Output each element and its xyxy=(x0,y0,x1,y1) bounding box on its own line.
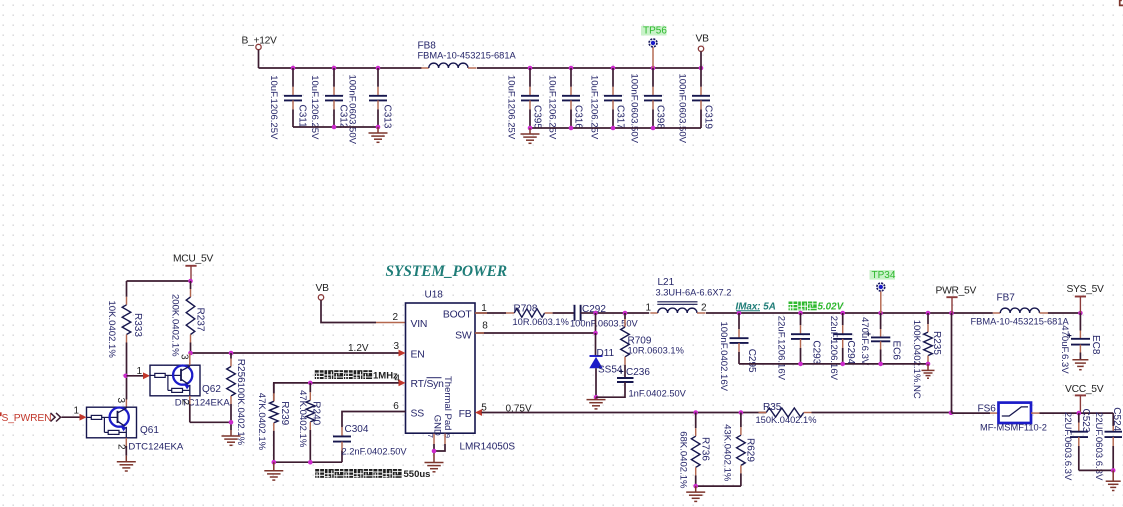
junction xyxy=(798,362,803,367)
junction xyxy=(798,311,803,316)
ground xyxy=(1072,359,1088,370)
svg-text:2: 2 xyxy=(115,444,126,450)
svg-text:43K.0402.1%: 43K.0402.1% xyxy=(721,424,732,482)
svg-text:100nF.0603.50V: 100nF.0603.50V xyxy=(347,75,358,145)
svg-text:0.75V: 0.75V xyxy=(506,403,532,414)
junction xyxy=(611,66,616,71)
diode D11 SS54 xyxy=(590,355,603,357)
svg-text:C311: C311 xyxy=(296,105,307,129)
capacitor C292 xyxy=(553,312,575,314)
svg-text:EN: EN xyxy=(411,349,425,360)
wire R256 to ground xyxy=(230,422,232,430)
wire FB net xyxy=(482,412,767,414)
junction xyxy=(528,66,533,71)
svg-text:1: 1 xyxy=(137,366,143,377)
ferrite bead FB7 xyxy=(993,312,1001,314)
junction xyxy=(651,126,656,131)
junction xyxy=(611,126,616,131)
power port SYS_5V xyxy=(1075,296,1086,298)
port VB (top) xyxy=(698,46,703,51)
svg-text:C313: C313 xyxy=(381,105,392,129)
svg-text:RT/Syn: RT/Syn xyxy=(411,379,445,390)
wire +12V rail left xyxy=(259,67,422,69)
svg-text:R240: R240 xyxy=(311,401,322,425)
svg-text:C398: C398 xyxy=(654,105,665,129)
svg-text:SS: SS xyxy=(411,408,425,419)
svg-text:U18: U18 xyxy=(425,290,444,301)
port S_PWREN xyxy=(0,412,2,416)
svg-text:47K.0402.1%: 47K.0402.1% xyxy=(297,390,308,448)
junction xyxy=(593,311,598,316)
resistor R709 xyxy=(624,313,626,319)
fuse FS6 MF-MSMF110-2 xyxy=(990,412,999,414)
capacitor EC8 (electrolytic) xyxy=(1079,313,1081,331)
capacitor C236 xyxy=(617,377,634,379)
wire RT/Syn net xyxy=(274,383,399,401)
svg-text:22UF.0603.6.3V: 22UF.0603.6.3V xyxy=(1062,412,1073,481)
junction xyxy=(229,351,234,356)
wire R333 to Q61 collector xyxy=(126,376,128,400)
capacitor C313 xyxy=(377,68,379,87)
svg-text:150K.0402.1%: 150K.0402.1% xyxy=(756,415,817,425)
wire Q61 emitter xyxy=(125,438,127,446)
svg-text:PWR_5V: PWR_5V xyxy=(936,285,977,296)
wire R35 to PWR_5V node xyxy=(812,412,952,414)
junction xyxy=(594,395,599,400)
junction xyxy=(593,331,598,336)
annotation: switching frequency 1MHz xyxy=(315,370,324,379)
svg-text:B_+12V: B_+12V xyxy=(242,36,278,47)
junction xyxy=(1078,311,1083,316)
svg-text:D11: D11 xyxy=(597,348,615,359)
svg-text:BOOT: BOOT xyxy=(443,309,472,320)
svg-text:1: 1 xyxy=(646,303,652,314)
svg-text:10uF.1206.25V: 10uF.1206.25V xyxy=(505,75,516,140)
svg-text:FBMA-10-453215-681A: FBMA-10-453215-681A xyxy=(418,51,517,61)
test point TP34 xyxy=(880,291,882,313)
wire EN net xyxy=(191,352,399,354)
test point TP56 symbol xyxy=(641,26,667,36)
svg-text:3: 3 xyxy=(115,398,126,404)
transistor Q61 DTC124EKA xyxy=(87,407,137,438)
junction xyxy=(840,311,845,316)
svg-text:TP56: TP56 xyxy=(643,26,667,37)
pin Q62 collector xyxy=(189,353,191,365)
svg-text:C295: C295 xyxy=(746,349,757,373)
wire PWR_5V stub xyxy=(951,297,953,313)
svg-text:100nF.0603.50V: 100nF.0603.50V xyxy=(570,319,639,329)
ground xyxy=(264,462,283,480)
wire BOOT net xyxy=(475,312,506,314)
svg-text:FB7: FB7 xyxy=(997,292,1016,303)
svg-text:SW: SW xyxy=(455,330,472,341)
svg-text:10R.0603.1%: 10R.0603.1% xyxy=(513,317,569,327)
junction xyxy=(840,362,845,367)
port VB (U18) xyxy=(318,295,323,300)
svg-text:C236: C236 xyxy=(626,367,650,378)
junction xyxy=(123,374,128,379)
svg-text:C319: C319 xyxy=(702,105,713,129)
svg-text:VB: VB xyxy=(696,34,710,45)
wire +12V rail right xyxy=(477,67,701,69)
test point TP56 xyxy=(652,47,654,68)
capacitor C293 xyxy=(800,313,802,325)
wire FB7 to SYS_5V xyxy=(1048,312,1081,314)
svg-text:3: 3 xyxy=(178,354,189,360)
svg-text:EC8: EC8 xyxy=(1090,335,1101,355)
junction xyxy=(308,381,313,386)
svg-text:C524: C524 xyxy=(1111,407,1122,431)
wire VOUT rail xyxy=(706,312,993,314)
junction xyxy=(1111,468,1116,473)
svg-text:Q62: Q62 xyxy=(202,384,221,395)
resistor R237 xyxy=(190,281,192,289)
resistor R333 xyxy=(126,281,128,297)
svg-text:100K.0402.1%.NC: 100K.0402.1%.NC xyxy=(911,320,922,399)
resistor R235 xyxy=(927,313,929,324)
svg-text:SS54: SS54 xyxy=(598,364,623,375)
svg-text:200K.0402.1%: 200K.0402.1% xyxy=(169,294,180,357)
junction xyxy=(1077,411,1082,416)
svg-text:FS6: FS6 xyxy=(978,404,997,415)
svg-text:FBMA-10-453215-681A: FBMA-10-453215-681A xyxy=(971,317,1070,327)
junction xyxy=(739,410,744,415)
ground xyxy=(222,430,241,445)
svg-text:68K.0402.1%: 68K.0402.1% xyxy=(677,431,688,489)
wire output cap ground rail xyxy=(739,363,928,365)
svg-text:22uF.1206.16V: 22uF.1206.16V xyxy=(828,316,839,381)
svg-text:10uF.1206.25V: 10uF.1206.25V xyxy=(309,75,320,140)
svg-text:2: 2 xyxy=(179,400,190,406)
svg-text:8: 8 xyxy=(482,321,488,332)
svg-text:2: 2 xyxy=(701,303,707,314)
ground xyxy=(1106,470,1121,490)
wire U18 GND/PAD pins xyxy=(433,434,435,444)
wire SW net xyxy=(475,332,596,334)
svg-text:10uF.1206.25V: 10uF.1206.25V xyxy=(588,75,599,140)
resistor R736 xyxy=(695,413,697,429)
svg-text:R333: R333 xyxy=(132,313,143,337)
resistor R35 xyxy=(766,408,804,417)
junction xyxy=(623,311,628,316)
junction xyxy=(332,125,337,130)
wire BOOT-SW link xyxy=(595,313,597,333)
transistor Q62 DTC124EKA xyxy=(150,365,200,396)
junction xyxy=(949,311,954,316)
ferrite bead FB8 xyxy=(421,67,429,69)
ground xyxy=(369,127,388,142)
svg-text:DTC124EKA: DTC124EKA xyxy=(128,442,184,453)
capacitor C319 xyxy=(700,68,702,87)
annotation theoretical value 5.02V xyxy=(789,302,798,311)
ground xyxy=(587,397,606,409)
wire VB drop xyxy=(700,52,702,69)
pin arrow FB xyxy=(475,409,482,416)
capacitor C398 xyxy=(652,68,654,87)
wire Q62 emitter xyxy=(189,396,191,404)
wire Q62 emitter to ground net xyxy=(190,421,231,423)
wire right cap group bottom xyxy=(530,127,701,129)
svg-text:MCU_5V: MCU_5V xyxy=(173,254,213,265)
capacitor C304 xyxy=(342,412,406,428)
svg-text:C395: C395 xyxy=(531,105,542,129)
svg-text:470uF.6.3V: 470uF.6.3V xyxy=(859,317,870,366)
wire PWR_5V to FS6 line xyxy=(951,313,953,413)
capacitor EC6 (electrolytic) xyxy=(880,313,882,329)
wire B_+12V drop xyxy=(258,50,260,68)
svg-text:10uF.1206.25V: 10uF.1206.25V xyxy=(268,75,279,140)
wire MCU_5V rail xyxy=(127,280,192,282)
svg-text:100nF.0402.16V: 100nF.0402.16V xyxy=(718,322,729,392)
junction xyxy=(376,125,381,130)
wire VCC_5V rail xyxy=(1040,412,1114,414)
svg-text:SYS_5V: SYS_5V xyxy=(1067,284,1105,295)
svg-text:22uF.1206.16V: 22uF.1206.16V xyxy=(775,316,786,381)
svg-text:VB: VB xyxy=(316,283,330,294)
junction xyxy=(291,66,296,71)
wire S_PWREN to Q61 xyxy=(62,416,80,418)
svg-text:10R.0603.1%: 10R.0603.1% xyxy=(628,345,684,355)
svg-text:100nF.0603.50V: 100nF.0603.50V xyxy=(676,74,687,144)
junction xyxy=(528,126,533,131)
svg-text:47K.0402.1%: 47K.0402.1% xyxy=(256,393,267,451)
capacitor C523 xyxy=(1078,413,1080,422)
power port MCU_5V xyxy=(185,265,196,267)
junction xyxy=(693,484,698,489)
wire VCC_5V stub xyxy=(1079,395,1081,413)
wire C523/C524 bottom xyxy=(1079,469,1113,471)
svg-text:R35: R35 xyxy=(763,402,782,413)
junction xyxy=(308,460,313,465)
junction xyxy=(432,449,437,454)
svg-text:SYSTEM_POWER: SYSTEM_POWER xyxy=(386,263,508,280)
svg-text:3.3UH-6A-6.6X7.2: 3.3UH-6A-6.6X7.2 xyxy=(656,287,732,297)
junction xyxy=(949,410,954,415)
svg-text:Q61: Q61 xyxy=(140,425,159,436)
svg-text:VCC_5V: VCC_5V xyxy=(1065,384,1104,395)
junction xyxy=(332,66,337,71)
svg-text:1nF.0402.50V: 1nF.0402.50V xyxy=(629,388,687,398)
svg-text:2.2nF.0402.50V: 2.2nF.0402.50V xyxy=(342,446,408,456)
wire VB to VIN xyxy=(321,300,376,322)
wire left cap group bottom xyxy=(293,126,378,128)
svg-text:LMR14050S: LMR14050S xyxy=(460,442,516,453)
svg-text:10uF.1206.25V: 10uF.1206.25V xyxy=(546,75,557,140)
op-amp U18 body (LMR14050S) xyxy=(406,303,476,433)
wire Q62 base xyxy=(127,375,144,377)
junction xyxy=(651,66,656,71)
junction xyxy=(188,279,193,284)
capacitor C524 xyxy=(1112,413,1114,426)
resistor R256 xyxy=(230,353,232,359)
junction xyxy=(376,66,381,71)
svg-text:R239: R239 xyxy=(279,401,290,425)
inductor L21 xyxy=(650,312,658,314)
wire SS RC bottom xyxy=(274,461,342,463)
svg-text:Thermal Pad: Thermal Pad xyxy=(442,376,453,430)
svg-text:C523: C523 xyxy=(1080,409,1091,433)
pin arrow RT/Syn xyxy=(399,380,406,387)
resistor R708 xyxy=(506,312,514,314)
power port VCC_5V xyxy=(1075,394,1086,396)
resistor R629 xyxy=(740,413,742,428)
svg-text:6: 6 xyxy=(393,401,399,412)
junction xyxy=(569,126,574,131)
wire divider bottom xyxy=(696,485,741,487)
test point TP34 symbol xyxy=(870,270,896,280)
svg-text:C316: C316 xyxy=(572,105,583,129)
svg-text:EC6: EC6 xyxy=(890,341,901,361)
svg-text:FB: FB xyxy=(459,409,472,420)
svg-text:C294: C294 xyxy=(845,340,856,364)
capacitor C311 xyxy=(292,68,294,87)
svg-text:VIN: VIN xyxy=(411,319,428,330)
annotation: soft-start time 550us xyxy=(315,469,324,478)
port B_+12V xyxy=(256,44,261,49)
svg-text:5.02V: 5.02V xyxy=(818,302,845,313)
junction xyxy=(737,311,742,316)
svg-text:R629: R629 xyxy=(744,438,755,462)
svg-text:10K.0402.1%: 10K.0402.1% xyxy=(106,301,117,359)
capacitor C316 xyxy=(570,68,572,87)
capacitor C294 xyxy=(842,313,844,325)
pin arrow EN xyxy=(399,350,406,357)
ground xyxy=(117,456,136,471)
pin arrow Q61 base xyxy=(80,414,87,421)
junction xyxy=(699,66,704,71)
svg-text:470uF.6.3V: 470uF.6.3V xyxy=(1059,325,1070,374)
capacitor C317 xyxy=(612,68,614,87)
junction xyxy=(878,362,883,367)
svg-text:R235: R235 xyxy=(931,331,942,355)
pin VIN stub xyxy=(376,322,406,324)
svg-text:R237: R237 xyxy=(195,308,206,332)
svg-text:1: 1 xyxy=(74,406,80,417)
svg-text:R256: R256 xyxy=(235,359,246,383)
svg-text:MF-MSMF110-2: MF-MSMF110-2 xyxy=(980,422,1047,432)
wire SYS_5V stub xyxy=(1079,297,1081,314)
svg-text:100nF.0603.50V: 100nF.0603.50V xyxy=(628,74,639,144)
capacitor C395 xyxy=(529,68,531,87)
wire D11 anode to ground xyxy=(595,368,597,397)
ground xyxy=(521,128,540,143)
junction xyxy=(926,362,931,367)
resistor R240 xyxy=(309,383,311,392)
wire BOOT to L21 xyxy=(596,312,650,314)
ground xyxy=(686,486,705,501)
wire MCU_5V stub xyxy=(190,266,192,281)
ground xyxy=(425,454,444,472)
wire FS6 line xyxy=(952,412,991,414)
svg-text:TP34: TP34 xyxy=(872,270,896,281)
chevron S_PWREN xyxy=(51,413,61,422)
resistor R239 xyxy=(273,383,275,393)
wire C236 to ground xyxy=(596,382,625,397)
junction xyxy=(569,66,574,71)
svg-text:2: 2 xyxy=(393,312,399,323)
wire SW to D11 xyxy=(595,333,597,356)
capacitor C295 xyxy=(738,313,740,329)
ground xyxy=(922,364,935,378)
svg-text:C293: C293 xyxy=(811,340,822,364)
svg-text:1MHz: 1MHz xyxy=(373,371,398,382)
svg-text:1.2V: 1.2V xyxy=(348,343,369,354)
svg-text:C304: C304 xyxy=(345,424,369,435)
svg-text:S_PWREN: S_PWREN xyxy=(2,413,52,424)
svg-text:550us: 550us xyxy=(404,469,431,480)
svg-text:C317: C317 xyxy=(614,105,625,129)
junction xyxy=(926,311,931,316)
border corner mark (sheet) xyxy=(1120,0,1123,5)
svg-text:9: 9 xyxy=(443,434,452,438)
junction xyxy=(272,460,277,465)
capacitor C312 xyxy=(333,68,335,87)
junction xyxy=(878,311,883,316)
svg-text:R708: R708 xyxy=(514,303,538,314)
junction xyxy=(188,351,193,356)
junction xyxy=(693,410,698,415)
junction xyxy=(229,420,234,425)
svg-text:R736: R736 xyxy=(700,437,711,461)
pin arrow Q62 base xyxy=(143,372,150,379)
power port PWR_5V xyxy=(946,296,957,298)
